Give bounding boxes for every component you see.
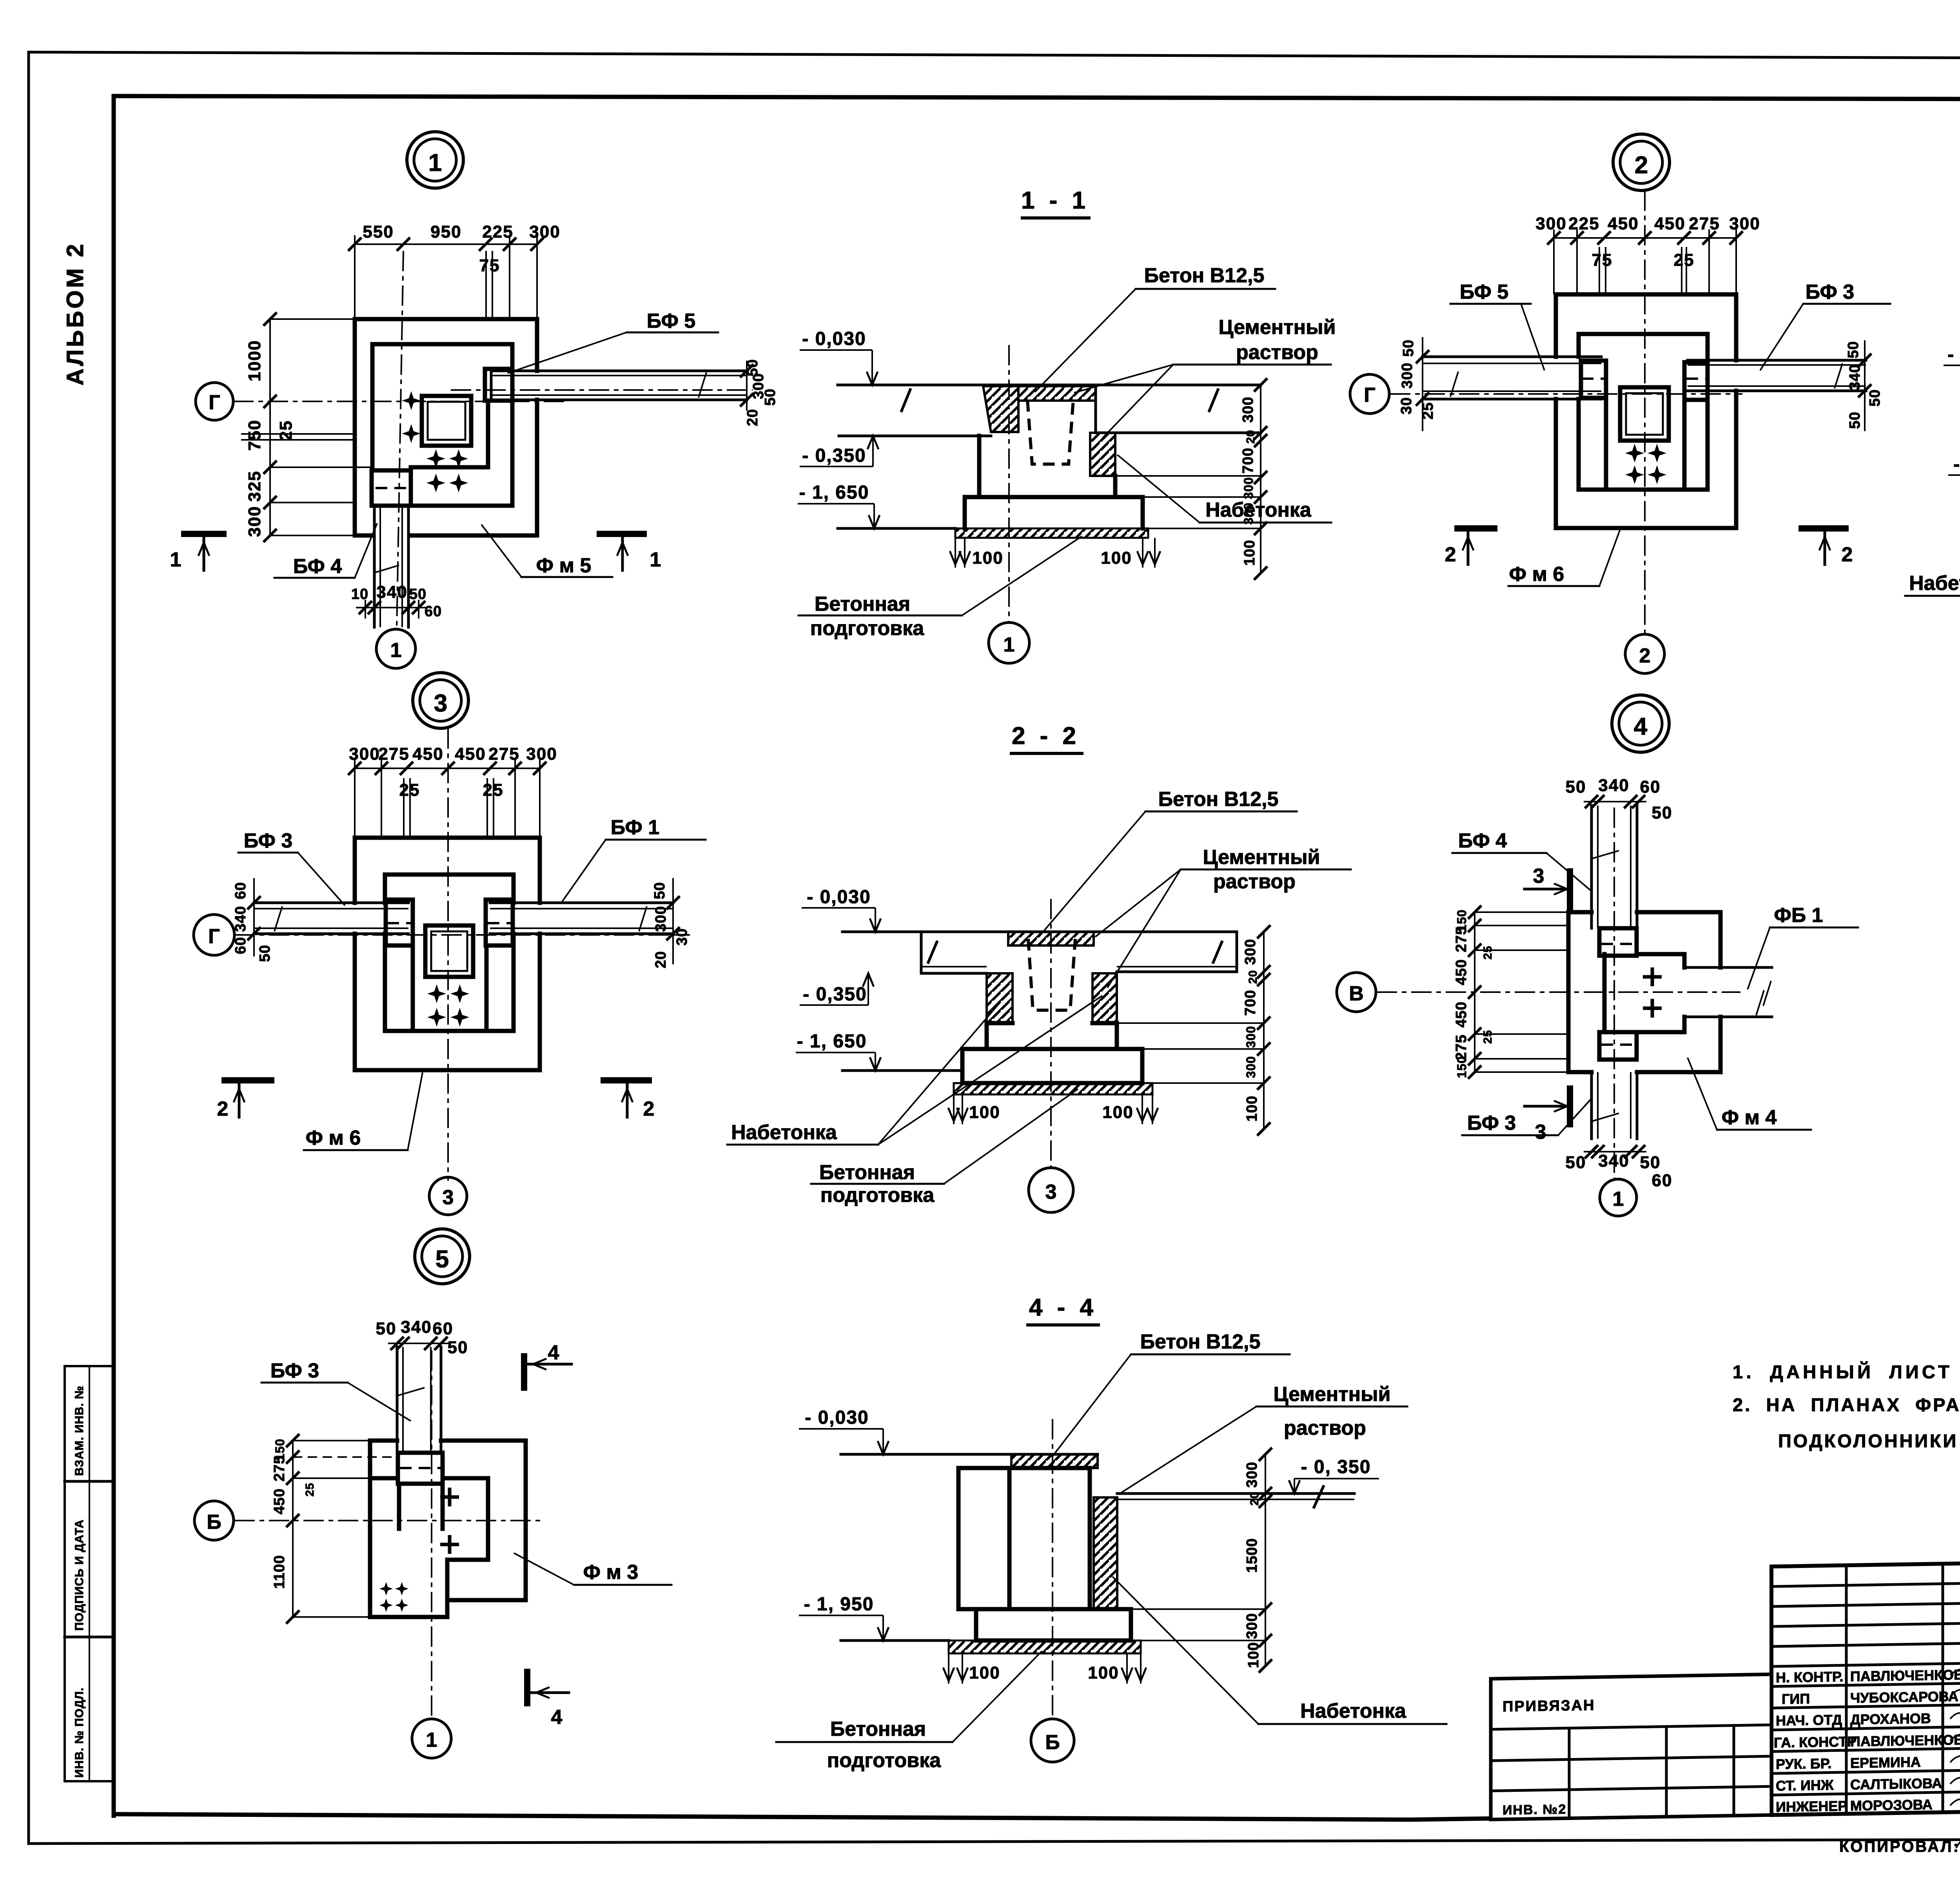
label BF3: [238, 829, 345, 906]
axis 1 bubble bottom: [1600, 1179, 1637, 1216]
pedestal body: [987, 1023, 1117, 1049]
column section: [422, 396, 471, 446]
svg-text:60: 60: [232, 937, 249, 954]
label FM6: [1508, 526, 1621, 586]
right dim chain: [1115, 378, 1267, 580]
svg-text:50: 50: [257, 945, 273, 962]
svg-text:БФ 5: БФ 5: [647, 310, 695, 332]
section mark 2 left: [1445, 528, 1497, 566]
right socket: [486, 900, 513, 945]
svg-text:950: 950: [430, 222, 461, 241]
top dimension chain: [348, 744, 557, 838]
elevation -0.030: [799, 1407, 889, 1454]
svg-text:Б: Б: [207, 1511, 221, 1533]
svg-text:БФ 3: БФ 3: [1467, 1112, 1516, 1134]
right floor slab: [1117, 932, 1237, 972]
socket dashed: [1027, 400, 1073, 464]
pile star marks: [379, 1582, 393, 1595]
svg-text:5: 5: [436, 1246, 449, 1273]
svg-text:300: 300: [1244, 1026, 1258, 1048]
bottom 100 dims: [950, 538, 1160, 568]
section mark 2 right: [1798, 528, 1853, 566]
label nabetonka: [1117, 455, 1331, 523]
svg-text:Бетон В12,5: Бетон В12,5: [1158, 788, 1279, 811]
bottom 100 dims: [943, 1653, 1146, 1684]
svg-text:Набетонка: Набетонка: [1205, 499, 1312, 521]
svg-text:Ф м 5: Ф м 5: [536, 554, 592, 577]
BF4 wall beam: [373, 488, 408, 627]
svg-text:Ф м 6: Ф м 6: [306, 1127, 361, 1149]
right dim chain: [1131, 1448, 1272, 1673]
svg-text:Ф м 6: Ф м 6: [1509, 563, 1564, 586]
label cement mortar: [1095, 846, 1351, 988]
svg-text:1: 1: [1004, 633, 1015, 656]
top dimension chain: [1535, 214, 1760, 294]
svg-text:подготовка: подготовка: [820, 1184, 935, 1207]
svg-text:ИНВ. № ПОДЛ.: ИНВ. № ПОДЛ.: [73, 1687, 86, 1778]
svg-text:Цементный: Цементный: [1274, 1383, 1391, 1406]
svg-text:20: 20: [653, 951, 669, 968]
svg-text:В: В: [1349, 982, 1364, 1005]
footing FM3 outline: [370, 1441, 526, 1617]
svg-text:раствор: раствор: [1213, 870, 1296, 893]
svg-text:ИНЖЕНЕР: ИНЖЕНЕР: [1776, 1798, 1847, 1815]
svg-text:4: 4: [548, 1341, 559, 1364]
beam socket: [398, 1453, 443, 1484]
staff names: [1774, 1666, 1960, 1815]
label cement mortar: [1074, 316, 1336, 438]
axis B circle: [194, 1501, 234, 1540]
section mark 3 bottom: [1524, 1085, 1570, 1143]
section mark 2 left: [217, 1080, 274, 1120]
svg-text:2: 2: [1639, 644, 1651, 667]
svg-text:ПРИВЯЗАН: ПРИВЯЗАН: [1503, 1697, 1595, 1715]
detail 5 bubble: [415, 1229, 470, 1284]
svg-text:50: 50: [448, 1338, 468, 1357]
center line: [1050, 899, 1052, 1168]
svg-text:Бетонная: Бетонная: [815, 593, 910, 615]
svg-text:4: 4: [1634, 713, 1648, 740]
section mark 4 bottom: [527, 1669, 569, 1729]
svg-text:50: 50: [1640, 1153, 1661, 1172]
svg-text:Набетонка: Набетонка: [1909, 572, 1960, 595]
BF4 bottom dims: [351, 583, 442, 620]
section mark 4 top: [524, 1341, 572, 1391]
svg-text:325: 325: [245, 470, 264, 501]
elevation -0.350: [1948, 430, 1960, 475]
svg-text:ИНВ. №2: ИНВ. №2: [1503, 1802, 1566, 1818]
right socket: [1684, 362, 1708, 400]
left dim chain: [1453, 906, 1568, 1079]
svg-text:ПОДПИСЬ И ДАТА: ПОДПИСЬ И ДАТА: [73, 1519, 86, 1631]
ground line: [838, 527, 955, 530]
svg-text:Бетонная: Бетонная: [819, 1161, 915, 1184]
label beton B12.5: [1035, 264, 1275, 392]
mortar funnel left wall: [983, 386, 1018, 432]
left end dims: [1398, 337, 1436, 431]
svg-text:3: 3: [1533, 865, 1544, 887]
svg-text:2: 2: [1842, 543, 1853, 566]
bottom 100 dims: [948, 1094, 1158, 1124]
right U wall: [1682, 400, 1687, 490]
left U wall: [411, 945, 415, 1031]
right U wall: [485, 945, 489, 1031]
svg-text:раствор: раствор: [1236, 341, 1318, 364]
axis G circle: [196, 383, 233, 420]
beam end dashed: [400, 1467, 441, 1469]
svg-text:Г: Г: [208, 925, 220, 948]
footing block: [962, 1049, 1142, 1083]
label BF5: [1450, 281, 1544, 370]
center line: [1008, 345, 1010, 622]
wall block: [958, 1468, 1009, 1609]
svg-text:3: 3: [434, 690, 447, 717]
floor level line left: [841, 1453, 1098, 1456]
label BF5: [508, 310, 718, 373]
elevation -0.030: [802, 887, 881, 932]
axis 1 bubble: [989, 622, 1029, 663]
svg-text:Бетон В12,5: Бетон В12,5: [1144, 264, 1265, 287]
svg-text:ФБ 1: ФБ 1: [1774, 904, 1823, 927]
svg-text:100: 100: [1244, 1096, 1260, 1121]
vertical axis 2: [1644, 191, 1646, 636]
BF5 wall beam: [451, 371, 753, 400]
svg-text:подготовка: подготовка: [827, 1749, 941, 1772]
elevation -1.650: [798, 482, 880, 528]
svg-text:раствор: раствор: [1284, 1417, 1366, 1439]
svg-text:450: 450: [412, 744, 443, 764]
svg-text:60: 60: [1640, 777, 1661, 797]
label FM3: [514, 1553, 671, 1585]
axis V bubble right: [1337, 973, 1376, 1012]
label FB1: [1748, 904, 1858, 989]
svg-text:340: 340: [401, 1317, 432, 1337]
svg-text:3: 3: [1045, 1181, 1057, 1203]
svg-text:225: 225: [1568, 214, 1599, 233]
svg-text:подготовка: подготовка: [810, 617, 924, 640]
floor level line: [838, 384, 1261, 387]
svg-text:50: 50: [1400, 339, 1417, 357]
BF3 beam from left: [254, 903, 411, 934]
elevation -0.030: [1944, 344, 1960, 390]
ground line: [842, 1069, 962, 1072]
axis B centerline: [234, 1520, 545, 1521]
svg-text:1: 1: [1613, 1188, 1624, 1210]
label concrete prep: [776, 1651, 1042, 1772]
footing FM6 outline: [1556, 294, 1736, 528]
svg-text:25: 25: [1481, 945, 1494, 959]
ground line: [841, 1639, 949, 1642]
pedestal: [1579, 334, 1708, 490]
svg-text:60: 60: [1652, 1171, 1673, 1190]
right stakan wall: [1093, 973, 1117, 1023]
label concrete prep: [799, 536, 1082, 640]
column section: [425, 926, 473, 977]
svg-text:550: 550: [363, 222, 394, 241]
svg-text:300: 300: [526, 744, 557, 764]
svg-text:ВЗАМ. ИНВ. №: ВЗАМ. ИНВ. №: [73, 1386, 86, 1476]
pile star marks: [427, 984, 446, 1003]
wall gap 25 lines: [241, 433, 355, 435]
svg-text:ПАВЛЮЧЕНКОВ: ПАВЛЮЧЕНКОВ: [1850, 1731, 1960, 1749]
svg-text:ПАВЛЮЧЕНКОВ: ПАВЛЮЧЕНКОВ: [1850, 1666, 1960, 1684]
section mark 1 right: [597, 534, 661, 571]
svg-text:450: 450: [1654, 214, 1685, 233]
footing slab FM5 outline: [355, 319, 537, 535]
svg-text:100: 100: [1241, 540, 1258, 566]
BF1 beam to right: [488, 903, 673, 934]
svg-text:50: 50: [1652, 803, 1673, 822]
svg-text:700: 700: [1242, 990, 1259, 1016]
BF5 beam from left: [1423, 357, 1604, 399]
svg-text:50: 50: [1566, 1153, 1586, 1172]
svg-text:РУК. БР.: РУК. БР.: [1776, 1755, 1831, 1772]
label BF3: [1760, 281, 1890, 370]
left socket: [386, 900, 413, 945]
svg-text:100: 100: [972, 548, 1003, 568]
label cement mortar: [1121, 1383, 1407, 1493]
svg-text:1: 1: [426, 1729, 437, 1751]
svg-text:340: 340: [1847, 364, 1863, 390]
BF3 beam to right: [1686, 360, 1866, 391]
axis G centerline: [1390, 393, 1742, 395]
detail 2 bubble: [1613, 134, 1670, 191]
copied by: [1839, 1834, 1960, 1855]
svg-text:60: 60: [433, 1319, 454, 1338]
left floor slab: [921, 932, 987, 973]
plus marks: [1643, 967, 1662, 986]
svg-text:1: 1: [390, 639, 402, 662]
svg-text:БФ 4: БФ 4: [1458, 829, 1507, 852]
left socket: [1581, 361, 1606, 398]
svg-text:ГИП: ГИП: [1782, 1691, 1810, 1707]
svg-text:- 0,350: - 0,350: [803, 984, 867, 1005]
svg-text:300: 300: [1399, 363, 1416, 388]
svg-text:Цементный: Цементный: [1219, 316, 1336, 339]
svg-text:Б: Б: [1045, 1731, 1060, 1754]
svg-text:25: 25: [303, 1483, 316, 1496]
signatures: [1950, 1666, 1960, 1806]
svg-text:БФ 3: БФ 3: [1806, 281, 1854, 303]
svg-text:50: 50: [762, 388, 779, 406]
svg-text:275: 275: [271, 1455, 288, 1481]
BF5 end dims: [740, 359, 779, 426]
svg-text:1100: 1100: [271, 1555, 288, 1589]
elevation -0.350: [800, 973, 874, 1005]
svg-text:50: 50: [1845, 341, 1862, 358]
elevation -0.030: [800, 328, 878, 385]
svg-text:Цементный: Цементный: [1203, 846, 1320, 869]
svg-text:Бетон В12,5: Бетон В12,5: [1140, 1330, 1261, 1353]
svg-text:75: 75: [1592, 250, 1613, 270]
pedestal: [385, 875, 514, 1031]
top dims: [1566, 776, 1673, 822]
privyazan table: [1491, 1674, 1771, 1819]
svg-text:60: 60: [425, 603, 442, 620]
svg-text:ЕРЕМИНА: ЕРЕМИНА: [1850, 1754, 1921, 1771]
svg-text:- 0,350: - 0,350: [1953, 454, 1960, 475]
svg-text:20: 20: [1247, 970, 1259, 984]
svg-text:БФ 1: БФ 1: [611, 816, 659, 839]
svg-text:1. ДАННЫЙ ЛИСТ СМОТРЕТЬ СО: 1. ДАННЫЙ ЛИСТ СМОТРЕТЬ СОВМЕСТНО С ЛИСТ…: [1733, 1361, 1960, 1382]
section mark 1 left: [170, 534, 227, 571]
svg-text:СТ. ИНЖ: СТ. ИНЖ: [1776, 1777, 1834, 1794]
svg-text:75: 75: [479, 256, 500, 275]
label FM4: [1688, 1058, 1811, 1130]
svg-text:НАЧ. ОТД: НАЧ. ОТД: [1776, 1711, 1842, 1729]
label nabetonka: [727, 996, 1102, 1145]
svg-text:100: 100: [1101, 548, 1132, 568]
axis 3 bubble: [1029, 1168, 1073, 1212]
section mark 3 top: [1524, 865, 1570, 910]
svg-text:4: 4: [551, 1706, 563, 1729]
svg-text:БФ 5: БФ 5: [1460, 281, 1508, 303]
right floor slab: [1117, 1486, 1354, 1507]
mortar top strip: [1008, 932, 1094, 945]
svg-text:60: 60: [232, 882, 249, 899]
svg-text:300: 300: [1241, 477, 1256, 499]
svg-text:Г: Г: [209, 391, 220, 414]
svg-text:Ф м 3: Ф м 3: [583, 1561, 639, 1584]
svg-text:300: 300: [1244, 1613, 1260, 1639]
svg-text:Г: Г: [1364, 384, 1375, 406]
floor level line: [842, 931, 1237, 933]
footing FM4 outline: [1568, 912, 1720, 1072]
svg-text:25: 25: [276, 420, 296, 441]
svg-text:Н. КОНТР.: Н. КОНТР.: [1776, 1668, 1844, 1686]
pile star marks: [1625, 444, 1644, 463]
svg-text:МОРОЗОВА: МОРОЗОВА: [1850, 1797, 1933, 1814]
svg-text:3: 3: [443, 1186, 454, 1209]
svg-text:450: 450: [1608, 214, 1639, 233]
svg-text:100: 100: [1088, 1663, 1119, 1682]
axis G circle: [1350, 374, 1389, 414]
bottom socket: [1599, 1032, 1637, 1060]
svg-text:1: 1: [428, 149, 442, 176]
svg-text:1 - 1: 1 - 1: [1021, 187, 1089, 214]
center line: [1052, 1419, 1053, 1717]
svg-text:ГА. КОНСТР: ГА. КОНСТР: [1774, 1733, 1857, 1751]
svg-text:340: 340: [1598, 776, 1629, 795]
column section: [1620, 387, 1669, 441]
svg-text:700: 700: [1240, 448, 1256, 474]
top dims: [376, 1317, 468, 1357]
nabetonka block: [1090, 433, 1115, 476]
right end dims: [652, 878, 690, 968]
vertical axis 1: [1613, 808, 1615, 1179]
svg-text:300: 300: [529, 222, 560, 241]
right floor slab bottom thin: [1117, 966, 1237, 967]
concrete prep slab: [949, 1640, 1141, 1653]
label beton B12.5: [1053, 1330, 1290, 1456]
svg-text:150: 150: [1455, 1056, 1469, 1078]
mortar top strip: [1018, 386, 1096, 401]
BF4 socket: [372, 470, 411, 506]
bottom dims: [1566, 1145, 1673, 1190]
plus marks: [440, 1488, 459, 1506]
axis G centerline: [233, 401, 564, 402]
svg-text:50: 50: [1867, 389, 1883, 406]
label BF3: [261, 1359, 411, 1421]
right floor slab: [1096, 385, 1261, 433]
svg-text:2: 2: [1635, 152, 1648, 179]
svg-text:300: 300: [245, 506, 264, 537]
axis G circle: [194, 915, 234, 955]
pedestal block: [1599, 954, 1684, 1032]
label nabetonka: [1112, 1577, 1446, 1724]
footing block: [965, 497, 1143, 528]
right end dims: [1845, 340, 1883, 431]
axis G centerline: [234, 934, 690, 936]
BF3 beam from top: [397, 1347, 441, 1453]
axis 1 bubble bottom: [376, 629, 416, 668]
svg-text:- 0,350: - 0,350: [802, 445, 866, 466]
beam end dashed bottom: [1601, 1043, 1635, 1046]
svg-text:25: 25: [483, 780, 504, 800]
svg-text:450: 450: [1453, 1002, 1470, 1027]
svg-text:275: 275: [488, 744, 519, 764]
svg-text:25: 25: [399, 780, 420, 800]
BF5 socket: [485, 369, 512, 401]
left U wall: [1604, 398, 1608, 490]
pedestal body: [979, 436, 1115, 497]
svg-text:300: 300: [1240, 397, 1256, 423]
left dimension chain: [245, 312, 372, 542]
axis V centerline: [1377, 991, 1740, 993]
svg-text:25: 25: [1481, 1030, 1494, 1043]
svg-text:450: 450: [1453, 959, 1470, 985]
pedestal outline: [370, 1478, 488, 1600]
svg-text:КОПИРОВАЛ:: КОПИРОВАЛ:: [1839, 1838, 1960, 1855]
svg-text:2. НА ПЛАНАХ ФРАГМЕНТОВ В: 2. НА ПЛАНАХ ФРАГМЕНТОВ В МЕСТАХ ОПИРАНИ…: [1733, 1394, 1960, 1415]
svg-text:Бетонная: Бетонная: [830, 1718, 926, 1740]
svg-text:БФ 4: БФ 4: [293, 555, 342, 578]
svg-text:750: 750: [245, 419, 264, 450]
svg-text:- 0,030: - 0,030: [805, 1407, 869, 1428]
axis 1 bubble bottom: [412, 1719, 451, 1758]
svg-text:300: 300: [653, 906, 669, 932]
label FM6: [304, 1072, 423, 1150]
svg-text:450: 450: [455, 744, 486, 764]
svg-text:БФ 3: БФ 3: [244, 829, 292, 852]
svg-text:- 0,030: - 0,030: [802, 328, 866, 349]
section 1-1 title: [1021, 187, 1089, 218]
staff table rows: [1771, 1582, 1960, 1795]
svg-text:50: 50: [652, 882, 668, 899]
svg-text:300: 300: [1244, 1462, 1260, 1488]
svg-text:275: 275: [1453, 926, 1470, 952]
svg-text:Ф м 4: Ф м 4: [1722, 1106, 1777, 1129]
svg-text:50: 50: [376, 1319, 397, 1338]
elevation -0.350 right: [1289, 1457, 1379, 1494]
beam end dashed top: [1601, 943, 1635, 945]
detail 4 bubble: [1612, 695, 1669, 752]
svg-text:1: 1: [650, 548, 661, 571]
label nabetonka: [1905, 451, 1960, 596]
elevation -1.950: [799, 1594, 889, 1640]
axis B bubble: [1031, 1719, 1074, 1762]
label BF4: [274, 523, 377, 578]
label BF1: [561, 816, 706, 903]
left stakan wall: [987, 973, 1013, 1023]
svg-text:20: 20: [1244, 430, 1257, 443]
recess walls: [399, 1484, 443, 1529]
label BF3: [1462, 1098, 1592, 1135]
concrete prep slab: [954, 1083, 1152, 1094]
svg-text:340: 340: [376, 583, 407, 602]
svg-text:20: 20: [744, 409, 761, 426]
anchor plus marks: [402, 391, 421, 410]
